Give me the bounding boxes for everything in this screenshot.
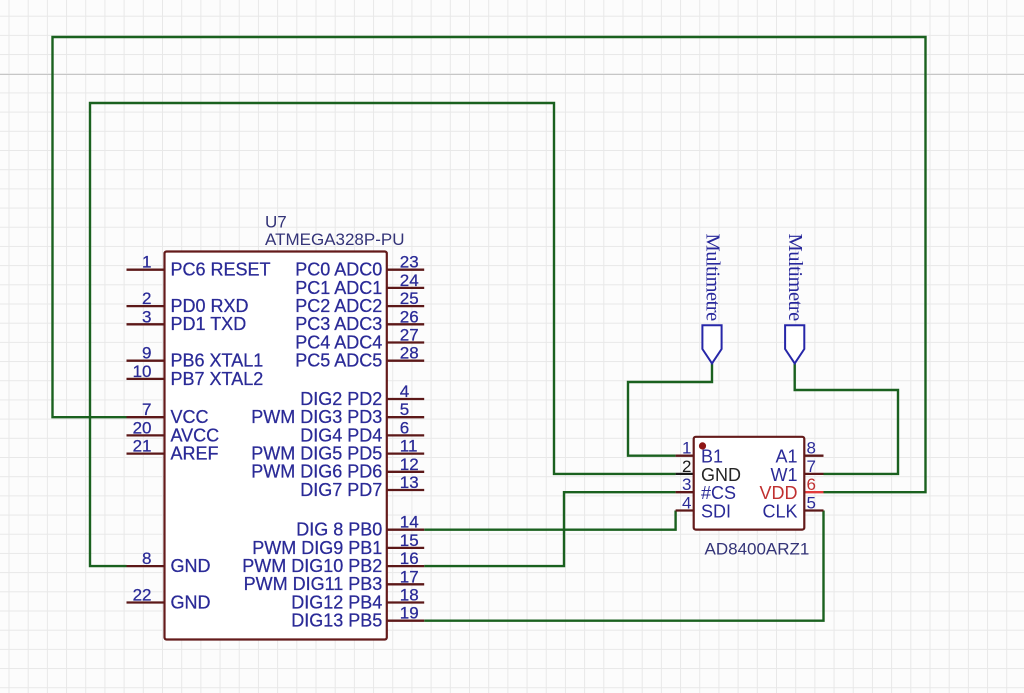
svg-text:4: 4 [400, 382, 409, 401]
svg-text:27: 27 [400, 326, 419, 345]
svg-text:Multimetre: Multimetre [702, 234, 724, 322]
svg-text:AREF: AREF [171, 444, 219, 464]
svg-text:6: 6 [400, 418, 409, 437]
svg-text:5: 5 [400, 400, 409, 419]
svg-text:Multimetre: Multimetre [784, 234, 806, 322]
svg-text:22: 22 [133, 586, 152, 605]
svg-text:11: 11 [400, 437, 418, 456]
svg-text:DIG4 PD4: DIG4 PD4 [300, 425, 382, 445]
svg-text:GND: GND [171, 592, 211, 612]
svg-text:26: 26 [400, 307, 419, 326]
svg-text:PD0 RXD: PD0 RXD [171, 296, 249, 316]
svg-text:VCC: VCC [171, 407, 209, 427]
svg-text:GND: GND [701, 465, 741, 485]
svg-text:DIG12 PB4: DIG12 PB4 [291, 592, 382, 612]
svg-text:9: 9 [142, 344, 151, 363]
svg-text:PWM DIG5 PD5: PWM DIG5 PD5 [251, 444, 382, 464]
svg-text:3: 3 [142, 307, 151, 326]
svg-text:1: 1 [682, 439, 691, 458]
svg-text:PC5 ADC5: PC5 ADC5 [295, 351, 382, 371]
svg-text:GND: GND [171, 556, 211, 576]
svg-text:15: 15 [400, 531, 419, 550]
svg-text:14: 14 [400, 513, 419, 532]
svg-text:8: 8 [142, 549, 151, 568]
svg-text:PC0 ADC0: PC0 ADC0 [295, 260, 382, 280]
svg-text:7: 7 [142, 400, 151, 419]
svg-text:W1: W1 [771, 465, 798, 485]
svg-text:19: 19 [400, 604, 419, 623]
svg-text:5: 5 [807, 494, 816, 513]
svg-text:10: 10 [133, 362, 152, 381]
svg-text:AVCC: AVCC [171, 425, 220, 445]
svg-text:8: 8 [807, 439, 816, 458]
svg-text:12: 12 [400, 455, 419, 474]
svg-text:24: 24 [400, 271, 419, 290]
svg-text:PC6 RESET: PC6 RESET [171, 260, 271, 280]
svg-text:PC2 ADC2: PC2 ADC2 [295, 296, 382, 316]
svg-text:DIG7 PD7: DIG7 PD7 [300, 480, 382, 500]
svg-text:U7: U7 [265, 213, 287, 232]
svg-text:PC3 ADC3: PC3 ADC3 [295, 314, 382, 334]
svg-text:DIG 8 PB0: DIG 8 PB0 [296, 520, 382, 540]
svg-text:16: 16 [400, 549, 419, 568]
svg-text:PWM DIG3 PD3: PWM DIG3 PD3 [251, 407, 382, 427]
svg-text:PWM DIG11 PB3: PWM DIG11 PB3 [244, 574, 383, 594]
svg-text:PB7 XTAL2: PB7 XTAL2 [171, 369, 264, 389]
svg-text:B1: B1 [701, 447, 723, 467]
svg-text:4: 4 [682, 494, 691, 513]
svg-text:3: 3 [682, 475, 691, 494]
svg-text:AD8400ARZ1: AD8400ARZ1 [705, 539, 810, 558]
svg-text:DIG2 PD2: DIG2 PD2 [300, 389, 382, 409]
svg-text:2: 2 [682, 457, 691, 476]
svg-text:7: 7 [807, 457, 816, 476]
svg-text:17: 17 [400, 567, 419, 586]
svg-text:13: 13 [400, 473, 419, 492]
svg-text:28: 28 [400, 344, 419, 363]
svg-text:PWM DIG6 PD6: PWM DIG6 PD6 [251, 462, 382, 482]
svg-text:A1: A1 [775, 447, 797, 467]
svg-text:PD1 TXD: PD1 TXD [171, 314, 247, 334]
svg-text:25: 25 [400, 289, 419, 308]
svg-text:CLK: CLK [762, 502, 797, 522]
svg-text:#CS: #CS [701, 483, 736, 503]
svg-text:VDD: VDD [759, 483, 797, 503]
svg-text:18: 18 [400, 586, 419, 605]
svg-text:ATMEGA328P-PU: ATMEGA328P-PU [265, 230, 405, 249]
svg-text:PC1 ADC1: PC1 ADC1 [295, 278, 382, 298]
svg-text:PB6 XTAL1: PB6 XTAL1 [171, 351, 264, 371]
svg-text:23: 23 [400, 253, 419, 272]
svg-text:2: 2 [142, 289, 151, 308]
svg-text:1: 1 [142, 253, 151, 272]
svg-text:21: 21 [133, 437, 152, 456]
svg-text:PWM DIG9 PB1: PWM DIG9 PB1 [252, 538, 382, 558]
svg-text:PC4 ADC4: PC4 ADC4 [295, 332, 382, 352]
svg-text:PWM DIG10 PB2: PWM DIG10 PB2 [242, 556, 382, 576]
svg-text:SDI: SDI [701, 502, 731, 522]
svg-text:20: 20 [133, 418, 152, 437]
svg-text:DIG13 PB5: DIG13 PB5 [291, 611, 382, 631]
svg-text:6: 6 [807, 475, 816, 494]
